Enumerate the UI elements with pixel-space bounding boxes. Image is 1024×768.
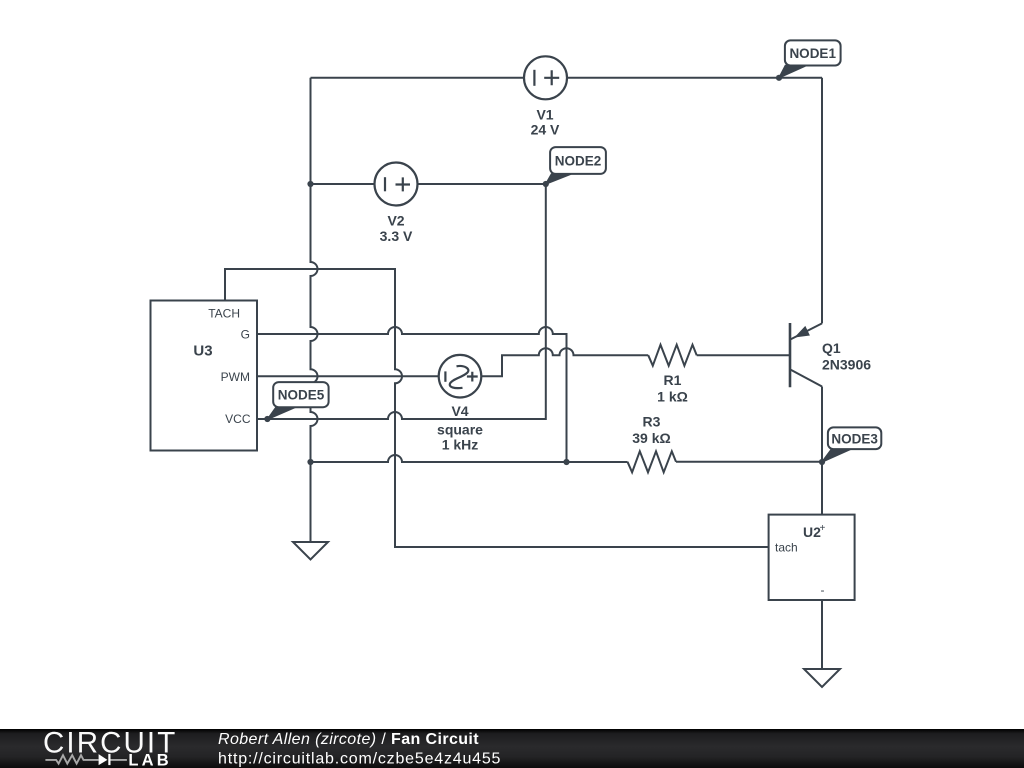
wire 3.3V net: NODE2 down then left to VCC pin bbox=[257, 184, 546, 419]
junction dot ground/V2 bbox=[307, 181, 313, 187]
resistor R3 bbox=[628, 451, 677, 472]
junction dot ground/R3 wire bbox=[307, 459, 313, 465]
wire V1 right lead to top-right corner bbox=[567, 77, 822, 79]
flag NODE2 bbox=[546, 147, 606, 184]
wire V4 output to R1 bbox=[481, 348, 648, 376]
svg-text:-: - bbox=[821, 583, 825, 597]
svg-text:NODE2: NODE2 bbox=[555, 154, 602, 169]
svg-text:R3: R3 bbox=[643, 414, 661, 430]
wire U2 minus pin down to ground bbox=[821, 600, 823, 669]
svg-text:24 V: 24 V bbox=[531, 122, 560, 138]
svg-text:V4: V4 bbox=[451, 403, 468, 419]
junction dot NODE5 bbox=[264, 416, 270, 422]
svg-text:3.3 V: 3.3 V bbox=[380, 228, 413, 244]
ground symbol right bbox=[804, 669, 840, 687]
svg-text:LAB: LAB bbox=[128, 751, 172, 768]
wire emitter vertical (24V to Q1 emitter) bbox=[821, 78, 823, 324]
flag NODE5 bbox=[267, 382, 328, 419]
wire R3 net: ground junction right to R3 bbox=[311, 455, 628, 462]
svg-text:Q1: Q1 bbox=[822, 340, 841, 356]
junction dot NODE1 bbox=[776, 75, 782, 81]
junction dot NODE3 bbox=[819, 459, 825, 465]
logo resistor-diode squiggle bbox=[45, 755, 127, 763]
wire V2 right lead to NODE2 bbox=[418, 183, 546, 185]
svg-text:tach: tach bbox=[775, 541, 798, 555]
IC U2 bbox=[769, 515, 855, 600]
voltage source V2 bbox=[375, 163, 418, 206]
flag NODE1 bbox=[779, 40, 841, 77]
svg-text:Robert Allen (zircote) / Fan C: Robert Allen (zircote) / Fan Circuit bbox=[218, 731, 479, 748]
flag NODE3 bbox=[822, 427, 881, 462]
svg-text:VCC: VCC bbox=[225, 412, 251, 426]
svg-text:PWM: PWM bbox=[221, 370, 250, 384]
svg-text:2N3906: 2N3906 bbox=[822, 357, 871, 373]
svg-text:1 kHz: 1 kHz bbox=[442, 437, 479, 453]
resistor R1 bbox=[648, 345, 697, 366]
svg-text:+: + bbox=[820, 523, 826, 534]
transistor Q1 2N3906 bbox=[790, 323, 822, 387]
wire G pin right then down to R3 net bbox=[257, 327, 567, 462]
svg-text:V2: V2 bbox=[387, 213, 404, 229]
wire R1 to Q1 base bbox=[697, 354, 789, 356]
svg-text:TACH: TACH bbox=[208, 307, 240, 321]
wire tach net: TACH pin up, right, down vertical B, right to U2 bbox=[225, 269, 769, 547]
wire PWM pin to V4 bbox=[257, 375, 439, 377]
IC U3 bbox=[151, 301, 258, 451]
footer bar bbox=[0, 729, 1024, 768]
ground symbol left bbox=[293, 542, 328, 560]
svg-text:NODE1: NODE1 bbox=[789, 46, 836, 61]
svg-text:square: square bbox=[437, 422, 483, 438]
wire NODE3 to U2 plus pin bbox=[821, 462, 823, 515]
svg-text:U2: U2 bbox=[803, 524, 821, 540]
svg-text:NODE3: NODE3 bbox=[831, 431, 878, 446]
svg-text:NODE5: NODE5 bbox=[278, 388, 325, 403]
junction dot G net joins R3 wire bbox=[563, 459, 569, 465]
svg-text:U3: U3 bbox=[193, 343, 212, 360]
svg-text:http://circuitlab.com/czbe5e4z: http://circuitlab.com/czbe5e4z4u455 bbox=[218, 750, 501, 767]
wire R3 to NODE3 bbox=[676, 461, 822, 463]
svg-text:V1: V1 bbox=[536, 107, 553, 123]
svg-text:R1: R1 bbox=[664, 372, 682, 388]
svg-text:39 kΩ: 39 kΩ bbox=[632, 430, 670, 446]
wire ground net vertical A with hops bbox=[311, 78, 318, 542]
wire V2 left lead bbox=[311, 183, 375, 185]
svg-text:1 kΩ: 1 kΩ bbox=[657, 389, 688, 405]
voltage source V1 bbox=[524, 56, 567, 99]
wire V1 left lead from top-left corner bbox=[311, 77, 525, 79]
source V4 (square wave) bbox=[439, 355, 482, 398]
logo diode triangle and bar bbox=[99, 754, 108, 765]
wire Q1 collector down to NODE3 bbox=[821, 387, 823, 463]
junction dot NODE2 bbox=[543, 181, 549, 187]
svg-text:G: G bbox=[241, 328, 250, 342]
